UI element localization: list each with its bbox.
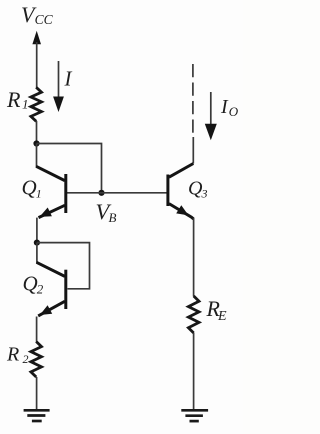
wire Q1 emitter to node B: [36, 218, 38, 243]
label R1: [6, 87, 29, 112]
current arrow I: [53, 61, 64, 112]
label RE: [206, 296, 228, 324]
svg-text:R: R: [6, 87, 21, 112]
ground (right): [181, 410, 208, 421]
svg-text:2: 2: [23, 352, 29, 366]
transistor Q1: [36, 144, 66, 218]
label R2: [6, 344, 29, 367]
svg-text:3: 3: [201, 187, 208, 201]
svg-text:I: I: [64, 67, 73, 91]
resistor RE: [188, 296, 199, 333]
svg-text:1: 1: [22, 97, 29, 112]
label IO: [220, 96, 239, 119]
svg-text:CC: CC: [35, 12, 54, 27]
wire node A to base loop (top): [37, 144, 102, 194]
wire R2 to ground: [36, 377, 38, 409]
svg-text:Q: Q: [22, 176, 37, 200]
wire RE to ground: [193, 333, 195, 409]
wire Q3 collector solid segment: [192, 137, 194, 164]
wire Q2 emitter to R2: [36, 317, 38, 342]
svg-text:2: 2: [37, 282, 44, 297]
net VCC label: [21, 2, 54, 27]
svg-text:O: O: [229, 104, 239, 119]
svg-text:E: E: [217, 309, 227, 324]
svg-text:R: R: [6, 344, 19, 366]
svg-text:1: 1: [36, 187, 42, 201]
label Q2: [23, 272, 44, 297]
resistor R1: [31, 87, 42, 121]
ground (left): [24, 410, 50, 421]
wire Q3 emitter to RE: [193, 218, 195, 296]
transistor Q3: [168, 164, 194, 220]
svg-text:Q: Q: [23, 272, 38, 296]
base wire Q1 to Q3: [66, 192, 167, 194]
transistor Q2: [37, 243, 66, 316]
wire Q3 collector (dashed output): [192, 64, 194, 134]
wire R1 to node A: [36, 121, 38, 144]
svg-text:I: I: [220, 96, 229, 118]
VCC supply arrow: [32, 31, 41, 88]
label Q3: [188, 178, 208, 201]
resistor R2: [31, 342, 42, 378]
node A (R1 / Q1 collector junction): [33, 140, 39, 146]
label Q1: [22, 176, 42, 201]
wire Q2 diode connection loop: [37, 243, 90, 289]
node VB: [98, 190, 104, 196]
svg-text:B: B: [109, 210, 117, 225]
label VB: [96, 199, 117, 225]
node B (Q1 emitter / Q2 collector): [34, 240, 40, 246]
current arrow IO: [205, 92, 217, 140]
